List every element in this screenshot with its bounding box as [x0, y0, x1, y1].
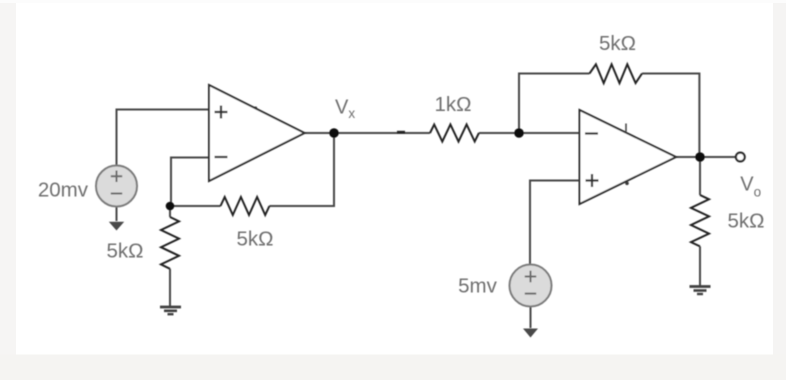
svg-text:5kΩ: 5kΩ: [237, 228, 274, 251]
svg-text:5mv: 5mv: [458, 275, 497, 298]
svg-text:1kΩ: 1kΩ: [435, 93, 472, 116]
svg-text:5kΩ: 5kΩ: [728, 210, 765, 233]
svg-text:5kΩ: 5kΩ: [107, 240, 144, 263]
svg-text:5kΩ: 5kΩ: [599, 32, 636, 55]
svg-text:20mv: 20mv: [38, 179, 89, 202]
